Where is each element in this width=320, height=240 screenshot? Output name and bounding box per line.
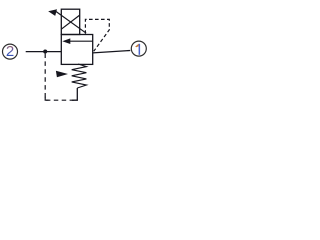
svg-text:2: 2 bbox=[6, 43, 14, 60]
